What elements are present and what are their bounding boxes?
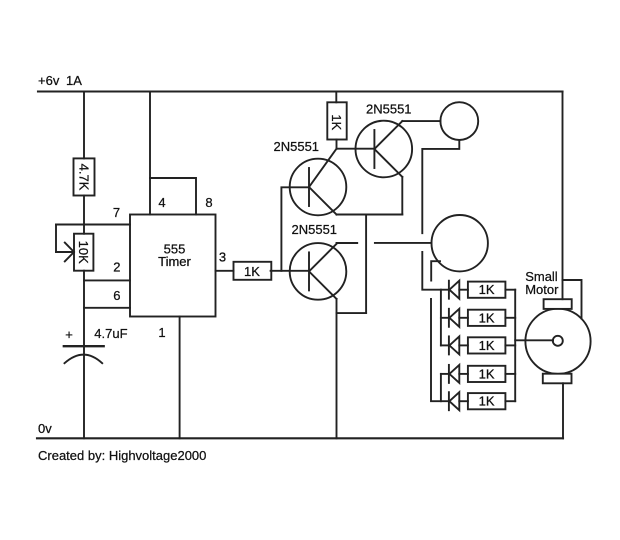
svg-text:1K: 1K — [479, 394, 495, 409]
svg-text:4.7K: 4.7K — [76, 164, 91, 191]
svg-text:1K: 1K — [479, 338, 495, 353]
svg-text:Motor: Motor — [525, 282, 559, 297]
svg-text:Created by: Highvoltage2000: Created by: Highvoltage2000 — [38, 448, 206, 463]
svg-text:2N5551: 2N5551 — [366, 102, 412, 117]
svg-text:1K: 1K — [244, 264, 260, 279]
svg-text:1K: 1K — [479, 282, 495, 297]
svg-text:2: 2 — [113, 260, 120, 275]
svg-text:6: 6 — [113, 288, 120, 303]
svg-text:0v: 0v — [38, 421, 52, 436]
svg-text:1K: 1K — [479, 366, 495, 381]
svg-text:2N5551: 2N5551 — [274, 139, 320, 154]
svg-text:+6v: +6v — [38, 73, 60, 88]
svg-text:+: + — [65, 327, 73, 342]
svg-text:1K: 1K — [329, 114, 344, 130]
svg-text:7: 7 — [113, 205, 120, 220]
svg-text:2N5551: 2N5551 — [292, 222, 338, 237]
svg-text:4.7uF: 4.7uF — [94, 326, 127, 341]
svg-text:3: 3 — [219, 250, 226, 265]
svg-text:10K: 10K — [76, 241, 91, 264]
svg-text:Timer: Timer — [158, 254, 191, 269]
svg-text:1: 1 — [158, 325, 165, 340]
svg-text:8: 8 — [205, 195, 212, 210]
svg-text:1A: 1A — [66, 73, 82, 88]
svg-text:4: 4 — [158, 195, 165, 210]
svg-text:1K: 1K — [479, 310, 495, 325]
